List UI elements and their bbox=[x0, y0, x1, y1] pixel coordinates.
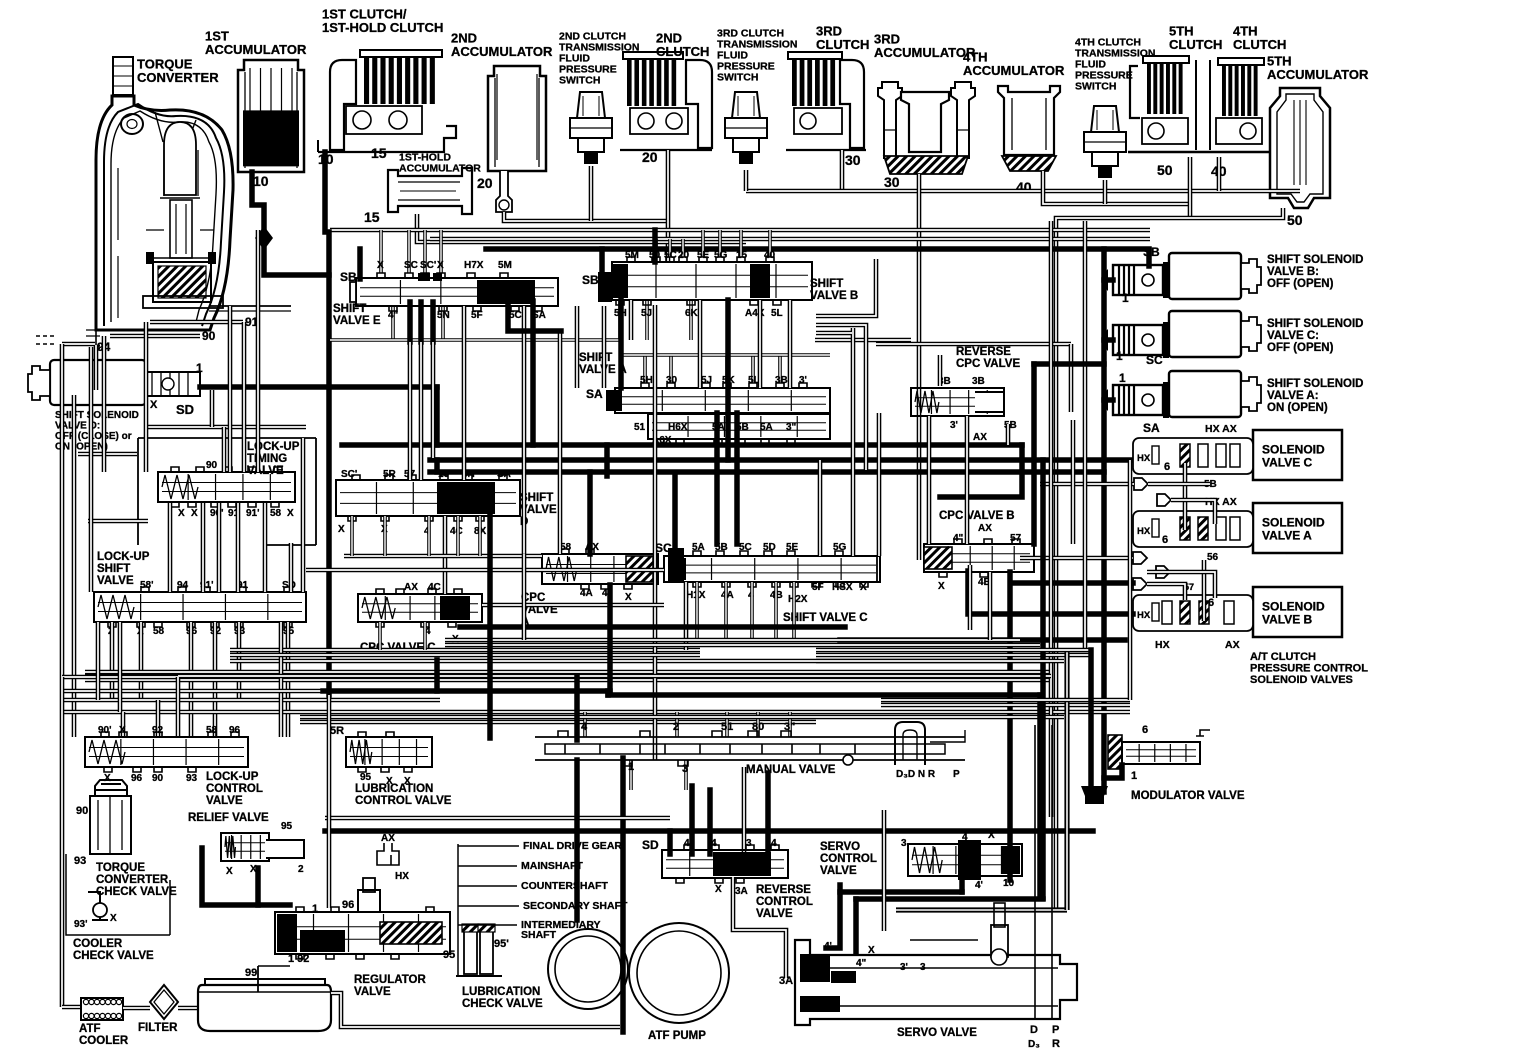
svg-text:CONTROL: CONTROL bbox=[820, 853, 877, 865]
svg-text:1ST-HOLD CLUTCH: 1ST-HOLD CLUTCH bbox=[322, 20, 443, 35]
svg-text:X: X bbox=[625, 592, 632, 603]
svg-text:5H: 5H bbox=[640, 375, 653, 386]
svg-text:56: 56 bbox=[1207, 552, 1219, 563]
svg-text:MAINSHAFT: MAINSHAFT bbox=[521, 860, 583, 872]
svg-text:1: 1 bbox=[1122, 291, 1129, 305]
svg-text:2: 2 bbox=[673, 721, 679, 733]
svg-text:VALVE: VALVE bbox=[97, 575, 134, 587]
svg-text:VALVE A: VALVE A bbox=[1262, 529, 1312, 543]
svg-text:SERVO VALVE: SERVO VALVE bbox=[897, 1027, 977, 1039]
svg-text:HX: HX bbox=[1137, 526, 1151, 537]
svg-text:5A: 5A bbox=[692, 542, 705, 553]
svg-text:SD: SD bbox=[642, 838, 659, 852]
svg-text:SB: SB bbox=[1143, 245, 1160, 259]
svg-text:50: 50 bbox=[1287, 212, 1303, 228]
svg-text:SHIFT: SHIFT bbox=[579, 352, 612, 364]
svg-text:15: 15 bbox=[364, 209, 380, 225]
svg-text:96: 96 bbox=[229, 725, 241, 736]
svg-text:5F: 5F bbox=[812, 582, 824, 593]
svg-text:RELIEF VALVE: RELIEF VALVE bbox=[188, 812, 269, 824]
svg-text:5C: 5C bbox=[664, 250, 677, 261]
svg-text:SHIFT: SHIFT bbox=[97, 563, 130, 575]
svg-text:3: 3 bbox=[746, 838, 752, 849]
svg-text:40: 40 bbox=[764, 250, 776, 261]
svg-text:VALVE: VALVE bbox=[756, 908, 793, 920]
svg-text:OFF (OPEN): OFF (OPEN) bbox=[1267, 278, 1334, 290]
svg-text:COOLER: COOLER bbox=[73, 938, 123, 950]
svg-text:90: 90 bbox=[76, 805, 88, 817]
svg-text:3B: 3B bbox=[775, 375, 788, 386]
svg-text:SHIFT: SHIFT bbox=[810, 278, 843, 290]
svg-text:X: X bbox=[104, 773, 111, 784]
svg-text:95': 95' bbox=[494, 938, 509, 950]
svg-text:20: 20 bbox=[678, 250, 690, 261]
svg-text:ACCUMULATOR: ACCUMULATOR bbox=[963, 63, 1065, 78]
svg-text:95: 95 bbox=[360, 772, 372, 783]
svg-text:ON (OPEN): ON (OPEN) bbox=[1267, 402, 1328, 414]
svg-text:ACCUMULATOR: ACCUMULATOR bbox=[451, 44, 553, 59]
svg-text:X: X bbox=[178, 508, 185, 519]
svg-text:LUBRICATION: LUBRICATION bbox=[355, 783, 433, 795]
svg-text:4": 4" bbox=[856, 958, 867, 969]
svg-text:1 92: 1 92 bbox=[288, 953, 309, 965]
svg-text:4A: 4A bbox=[580, 588, 593, 599]
svg-text:REVERSE: REVERSE bbox=[756, 884, 811, 896]
svg-text:SD: SD bbox=[176, 402, 194, 417]
svg-text:6K: 6K bbox=[685, 308, 699, 319]
svg-text:10: 10 bbox=[253, 173, 269, 189]
svg-text:CONVERTER: CONVERTER bbox=[96, 874, 169, 886]
svg-text:58: 58 bbox=[153, 626, 165, 637]
svg-text:VALVE B:: VALVE B: bbox=[1267, 266, 1319, 278]
svg-text:VALVE A:: VALVE A: bbox=[1267, 390, 1319, 402]
svg-text:58: 58 bbox=[270, 508, 282, 519]
svg-text:TORQUE: TORQUE bbox=[96, 862, 145, 874]
svg-text:4: 4 bbox=[684, 838, 690, 849]
svg-text:4: 4 bbox=[771, 838, 777, 849]
svg-text:VALVE E: VALVE E bbox=[333, 315, 381, 327]
svg-text:X: X bbox=[404, 776, 411, 787]
svg-text:P: P bbox=[1052, 1024, 1059, 1036]
svg-text:SOLENOID VALVES: SOLENOID VALVES bbox=[1250, 674, 1353, 686]
svg-text:51: 51 bbox=[721, 721, 733, 733]
svg-text:90: 90 bbox=[202, 329, 216, 343]
svg-text:SC: SC bbox=[404, 260, 418, 271]
svg-text:SA: SA bbox=[1143, 421, 1160, 435]
svg-text:30: 30 bbox=[845, 152, 861, 168]
svg-text:AX: AX bbox=[381, 833, 395, 844]
svg-text:92: 92 bbox=[152, 725, 164, 736]
svg-text:93: 93 bbox=[186, 773, 198, 784]
svg-text:HX: HX bbox=[1137, 453, 1151, 464]
svg-text:15: 15 bbox=[736, 250, 748, 261]
svg-text:VALVE: VALVE bbox=[820, 865, 857, 877]
svg-text:HX AX: HX AX bbox=[1205, 423, 1237, 435]
svg-text:5J: 5J bbox=[701, 375, 712, 386]
svg-text:R: R bbox=[1052, 1038, 1060, 1050]
svg-text:SHIFT SOLENOID: SHIFT SOLENOID bbox=[1267, 318, 1363, 330]
svg-text:H7X: H7X bbox=[464, 260, 484, 271]
svg-text:SA: SA bbox=[586, 387, 603, 401]
svg-text:3B: 3B bbox=[972, 376, 985, 387]
svg-text:P: P bbox=[953, 769, 960, 780]
svg-text:VALVE B: VALVE B bbox=[1262, 613, 1313, 627]
svg-text:90: 90 bbox=[206, 460, 218, 471]
svg-text:CHECK VALVE: CHECK VALVE bbox=[96, 886, 177, 898]
svg-text:SC: SC bbox=[1146, 353, 1163, 367]
svg-text:X: X bbox=[338, 524, 345, 535]
svg-text:REVERSE: REVERSE bbox=[956, 346, 1011, 358]
svg-text:MANUAL VALVE: MANUAL VALVE bbox=[746, 764, 836, 776]
svg-text:30: 30 bbox=[666, 375, 678, 386]
svg-text:30: 30 bbox=[884, 174, 900, 190]
svg-text:SC': SC' bbox=[420, 260, 436, 271]
svg-text:5G: 5G bbox=[833, 542, 847, 553]
svg-text:ACCUMULATOR: ACCUMULATOR bbox=[1267, 67, 1369, 82]
svg-text:SHIFT SOLENOID: SHIFT SOLENOID bbox=[1267, 378, 1363, 390]
svg-text:CONVERTER: CONVERTER bbox=[137, 70, 219, 85]
svg-text:VALVE B: VALVE B bbox=[810, 290, 858, 302]
svg-text:58': 58' bbox=[140, 580, 154, 591]
svg-text:HSX: HSX bbox=[832, 582, 853, 593]
svg-text:51: 51 bbox=[634, 422, 646, 433]
svg-text:X: X bbox=[386, 776, 393, 787]
svg-text:SHIFT: SHIFT bbox=[333, 303, 366, 315]
svg-text:5J: 5J bbox=[641, 308, 652, 319]
svg-text:80: 80 bbox=[752, 721, 764, 733]
svg-text:AX: AX bbox=[978, 523, 992, 534]
svg-text:SWITCH: SWITCH bbox=[1075, 80, 1116, 92]
svg-text:LOCK-UP: LOCK-UP bbox=[247, 441, 300, 453]
svg-text:SERVO: SERVO bbox=[820, 841, 860, 853]
svg-text:D₃: D₃ bbox=[1028, 1039, 1040, 1050]
svg-text:SB: SB bbox=[582, 273, 599, 287]
svg-text:X: X bbox=[988, 830, 995, 841]
svg-text:50: 50 bbox=[1157, 162, 1173, 178]
svg-text:X: X bbox=[119, 725, 126, 736]
svg-text:VALVE C:: VALVE C: bbox=[1267, 330, 1319, 342]
svg-text:AX: AX bbox=[404, 582, 418, 593]
svg-text:20: 20 bbox=[477, 175, 493, 191]
svg-text:91': 91' bbox=[246, 508, 260, 519]
svg-text:ACCUMULATOR: ACCUMULATOR bbox=[399, 162, 481, 174]
svg-text:6: 6 bbox=[1162, 534, 1168, 546]
svg-text:CLUTCH: CLUTCH bbox=[656, 44, 709, 59]
svg-text:CLUTCH: CLUTCH bbox=[1233, 37, 1286, 52]
svg-text:VALVE: VALVE bbox=[206, 795, 243, 807]
svg-text:X: X bbox=[715, 884, 722, 895]
svg-text:X: X bbox=[150, 399, 158, 411]
svg-text:3': 3' bbox=[950, 420, 958, 431]
svg-text:SOLENOID: SOLENOID bbox=[1262, 516, 1325, 530]
svg-text:AX: AX bbox=[973, 432, 987, 443]
svg-text:MODULATOR VALVE: MODULATOR VALVE bbox=[1131, 790, 1245, 802]
svg-text:3": 3" bbox=[784, 721, 795, 733]
svg-text:SHIFT SOLENOID: SHIFT SOLENOID bbox=[1267, 254, 1363, 266]
svg-text:D₃D N R: D₃D N R bbox=[896, 769, 936, 780]
svg-text:LUBRICATION: LUBRICATION bbox=[462, 986, 540, 998]
svg-text:5N: 5N bbox=[437, 310, 450, 321]
svg-text:VALVE C: VALVE C bbox=[1262, 456, 1313, 470]
svg-text:3A: 3A bbox=[735, 886, 748, 897]
svg-text:HX: HX bbox=[1155, 639, 1170, 651]
svg-text:ATF PUMP: ATF PUMP bbox=[648, 1030, 706, 1042]
svg-text:5C: 5C bbox=[739, 542, 752, 553]
svg-text:H6X: H6X bbox=[668, 422, 688, 433]
svg-text:ACCUMULATOR: ACCUMULATOR bbox=[205, 42, 307, 57]
svg-text:57: 57 bbox=[1010, 533, 1022, 544]
svg-text:6: 6 bbox=[1208, 597, 1214, 609]
svg-text:4: 4 bbox=[581, 721, 588, 733]
svg-text:1: 1 bbox=[196, 361, 203, 375]
svg-text:5D: 5D bbox=[763, 542, 776, 553]
svg-text:VALVE: VALVE bbox=[354, 986, 391, 998]
svg-text:X: X bbox=[938, 581, 945, 592]
svg-text:HX: HX bbox=[395, 871, 409, 882]
svg-text:COUNTERSHAFT: COUNTERSHAFT bbox=[521, 880, 608, 892]
svg-text:SHIFT SOLENOID: SHIFT SOLENOID bbox=[55, 410, 139, 421]
svg-text:OFF (CLOSE) or: OFF (CLOSE) or bbox=[55, 431, 132, 442]
svg-text:TIMING: TIMING bbox=[247, 453, 287, 465]
svg-text:X: X bbox=[868, 945, 875, 956]
svg-text:3: 3 bbox=[920, 962, 926, 973]
svg-text:4: 4 bbox=[711, 838, 717, 849]
svg-text:X: X bbox=[191, 508, 198, 519]
svg-text:4": 4" bbox=[388, 310, 399, 321]
svg-text:94: 94 bbox=[177, 580, 189, 591]
svg-text:1: 1 bbox=[1131, 770, 1137, 782]
svg-text:CHECK VALVE: CHECK VALVE bbox=[462, 998, 543, 1010]
svg-text:X: X bbox=[226, 866, 233, 877]
svg-text:3: 3 bbox=[682, 763, 688, 775]
svg-text:5R: 5R bbox=[383, 469, 397, 480]
svg-text:5F: 5F bbox=[471, 310, 483, 321]
svg-text:1: 1 bbox=[312, 903, 318, 915]
svg-text:90': 90' bbox=[98, 725, 112, 736]
svg-text:OFF (OPEN): OFF (OPEN) bbox=[1267, 342, 1334, 354]
svg-text:CPC VALVE B: CPC VALVE B bbox=[939, 510, 1015, 522]
svg-text:CLUTCH: CLUTCH bbox=[816, 37, 869, 52]
svg-text:X: X bbox=[110, 913, 117, 924]
svg-text:95: 95 bbox=[281, 821, 293, 832]
svg-text:A/T CLUTCH: A/T CLUTCH bbox=[1250, 651, 1316, 663]
svg-text:AX: AX bbox=[1225, 639, 1240, 651]
svg-text:4': 4' bbox=[975, 880, 983, 891]
svg-text:SC': SC' bbox=[341, 469, 357, 480]
svg-text:5A: 5A bbox=[760, 422, 773, 433]
svg-text:90: 90 bbox=[152, 773, 164, 784]
svg-text:D: D bbox=[1030, 1024, 1038, 1036]
svg-text:SHAFT: SHAFT bbox=[521, 929, 557, 941]
svg-text:95: 95 bbox=[443, 949, 455, 961]
svg-text:1: 1 bbox=[1119, 371, 1126, 385]
svg-text:5L: 5L bbox=[771, 308, 783, 319]
svg-text:ACCUMULATOR: ACCUMULATOR bbox=[874, 45, 976, 60]
svg-text:HX: HX bbox=[1137, 610, 1151, 621]
svg-text:PRESSURE CONTROL: PRESSURE CONTROL bbox=[1250, 662, 1368, 674]
svg-text:4": 4" bbox=[953, 533, 964, 544]
svg-text:10: 10 bbox=[1003, 878, 1015, 889]
svg-text:5M: 5M bbox=[625, 250, 639, 261]
svg-text:1: 1 bbox=[1116, 349, 1123, 363]
svg-text:SOLENOID: SOLENOID bbox=[1262, 600, 1325, 614]
svg-text:X: X bbox=[287, 508, 294, 519]
svg-text:3": 3" bbox=[786, 422, 797, 433]
svg-text:SWITCH: SWITCH bbox=[559, 74, 600, 86]
svg-text:FILTER: FILTER bbox=[138, 1022, 178, 1034]
svg-text:CHECK VALVE: CHECK VALVE bbox=[73, 950, 154, 962]
svg-text:99: 99 bbox=[245, 967, 257, 979]
svg-text:4: 4 bbox=[602, 588, 608, 599]
svg-text:4': 4' bbox=[824, 941, 832, 952]
svg-text:5G: 5G bbox=[714, 250, 728, 261]
svg-text:5C: 5C bbox=[509, 310, 522, 321]
svg-text:2: 2 bbox=[298, 864, 304, 875]
svg-text:3: 3 bbox=[901, 838, 907, 849]
svg-text:ATF: ATF bbox=[79, 1023, 101, 1035]
svg-text:3': 3' bbox=[799, 375, 807, 386]
svg-text:X: X bbox=[437, 260, 444, 271]
svg-text:6: 6 bbox=[1142, 724, 1148, 736]
svg-text:93: 93 bbox=[74, 855, 86, 867]
svg-text:58: 58 bbox=[206, 725, 218, 736]
svg-text:5M: 5M bbox=[498, 260, 512, 271]
svg-text:4C: 4C bbox=[428, 582, 441, 593]
svg-text:4: 4 bbox=[962, 832, 968, 843]
svg-text:93': 93' bbox=[74, 919, 88, 930]
svg-text:3': 3' bbox=[900, 962, 908, 973]
svg-text:CLUTCH: CLUTCH bbox=[1169, 37, 1222, 52]
svg-text:CPC VALVE: CPC VALVE bbox=[956, 358, 1020, 370]
svg-text:SOLENOID: SOLENOID bbox=[1262, 443, 1325, 457]
svg-text:LOCK-UP: LOCK-UP bbox=[206, 771, 259, 783]
svg-text:FINAL DRIVE GEAR: FINAL DRIVE GEAR bbox=[523, 840, 622, 852]
svg-text:LOCK-UP: LOCK-UP bbox=[97, 551, 150, 563]
svg-text:CONTROL VALVE: CONTROL VALVE bbox=[355, 795, 452, 807]
svg-text:5E: 5E bbox=[697, 250, 710, 261]
svg-text:SWITCH: SWITCH bbox=[717, 71, 758, 83]
svg-text:96: 96 bbox=[131, 773, 143, 784]
svg-text:X: X bbox=[860, 582, 867, 593]
svg-text:H2X: H2X bbox=[788, 594, 808, 605]
svg-text:CONTROL: CONTROL bbox=[206, 783, 263, 795]
svg-text:5E: 5E bbox=[786, 542, 799, 553]
svg-text:COOLER: COOLER bbox=[79, 1035, 129, 1047]
svg-text:15: 15 bbox=[371, 145, 387, 161]
svg-text:CONTROL: CONTROL bbox=[756, 896, 813, 908]
svg-text:96: 96 bbox=[342, 899, 354, 911]
svg-text:5R: 5R bbox=[330, 725, 344, 737]
svg-text:20: 20 bbox=[642, 149, 658, 165]
svg-text:6: 6 bbox=[1164, 461, 1170, 473]
svg-text:REGULATOR: REGULATOR bbox=[354, 974, 426, 986]
svg-text:1: 1 bbox=[628, 761, 634, 773]
svg-text:X: X bbox=[377, 260, 384, 271]
